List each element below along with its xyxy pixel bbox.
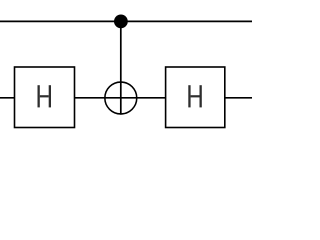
H gate 1 label <box>38 85 52 107</box>
wire q1 (bottom qubit wire) <box>0 97 252 99</box>
CNOT target circle on q1 <box>105 82 137 114</box>
wire q0 (top qubit wire) <box>0 20 252 22</box>
wire vertical control link <box>120 21 122 114</box>
H gate box 1 <box>15 67 75 128</box>
H gate 2 label <box>188 85 202 107</box>
H gate box 2 <box>166 67 225 128</box>
control dot on q0 <box>114 15 128 29</box>
